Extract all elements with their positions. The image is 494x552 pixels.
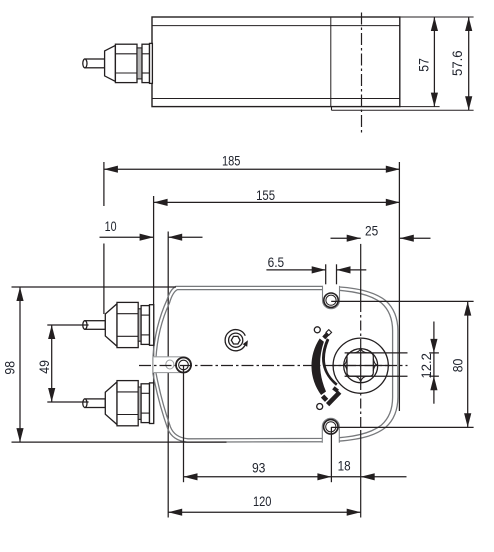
cable gland front lower: [83, 381, 154, 426]
scale diamond dash bottom (continuing outer arc): [323, 396, 327, 400]
svg-text:98: 98: [1, 361, 17, 375]
mounting bracket edge (vertical, inside body): [330, 17, 332, 107]
housing outline inner: [156, 290, 393, 439]
extension lines to top mounting hole: [325, 264, 327, 292]
dimension 12.2: [430, 322, 437, 404]
extension line (body edge at slot): [167, 232, 169, 518]
svg-text:80: 80: [450, 359, 466, 373]
cable gland front upper: [83, 302, 154, 347]
dimension 57: [431, 17, 438, 107]
gland cable: [85, 59, 105, 68]
scale end circle bottom: [317, 404, 323, 410]
horizontal centerline (front view): [139, 365, 408, 367]
vertical centerline through shaft: [360, 244, 362, 518]
svg-text:49: 49: [36, 360, 52, 374]
left mounting hole: [176, 358, 191, 373]
mounting slot (left, keyhole): [153, 357, 191, 373]
dimension 25: [331, 235, 431, 242]
housing inner top line: [152, 25, 400, 27]
cable gland (top view): [83, 43, 153, 83]
clamp cusp east: [373, 359, 376, 371]
svg-text:57: 57: [416, 58, 432, 72]
housing body (side view): [152, 17, 400, 107]
vertical centerline (top view): [361, 13, 363, 134]
position indicator scale: outer crescent arc: [311, 339, 326, 396]
dimension 18: [331, 473, 406, 480]
gland flange: [150, 383, 154, 424]
scale radial end bar: [328, 392, 340, 404]
clamp cusp south: [354, 376, 367, 382]
housing inner bottom line: [152, 98, 400, 100]
mounting ledge under housing: [331, 107, 333, 111]
gland cone: [105, 382, 117, 425]
clamp cusp west: [344, 359, 347, 371]
bottom mounting hole: [324, 420, 338, 434]
shaft flat extension lines (12.2): [345, 353, 439, 376]
dimension 10: [100, 232, 203, 518]
hole extension lines (80): [331, 301, 473, 427]
gland main nut: [117, 381, 138, 426]
svg-text:18: 18: [338, 458, 351, 474]
scale tick top (dash continuing outer arc): [324, 334, 328, 338]
bottom mounting hole notch: [322, 418, 339, 444]
svg-text:57.6: 57.6: [449, 50, 465, 76]
dimension 49: [47, 325, 88, 402]
gland locknut: [142, 44, 150, 82]
gland main nut: [117, 302, 138, 347]
svg-text:10: 10: [105, 218, 117, 234]
gland main nut: [115, 44, 137, 82]
bottom edge extension line (57): [400, 106, 440, 108]
gland cone: [105, 45, 116, 81]
gland locknut: [141, 384, 149, 423]
ledge bottom line / 57.6 extension line: [332, 109, 474, 111]
slot inner stadium: [166, 360, 174, 369]
dimension 80: [464, 302, 471, 428]
svg-text:93: 93: [252, 460, 266, 476]
gland washer ring: [138, 309, 141, 341]
gland flange: [150, 305, 154, 346]
dimension 98: [12, 287, 227, 442]
scale end circle top: [314, 327, 320, 333]
dimension 6.5: [266, 264, 366, 292]
gland flange: [150, 43, 153, 83]
extension line right (body edge): [398, 162, 400, 411]
gland cable: [85, 399, 105, 408]
dimension 185: [104, 162, 400, 411]
gland cable: [85, 321, 105, 330]
top mounting hole notch: [323, 284, 340, 308]
gland locknut: [141, 306, 149, 345]
extension line left (gland tip): [103, 162, 105, 206]
gland washer ring: [138, 387, 141, 419]
extension line left (slot tab): [153, 196, 155, 423]
hollow diamond marker top: [326, 330, 332, 336]
svg-text:120: 120: [253, 493, 272, 509]
position indicator scale: inner tapered arc: [322, 338, 338, 386]
manual override clutch button: [225, 330, 248, 351]
clamp square hole: [347, 353, 373, 376]
housing outline outer: [153, 286, 398, 442]
gland cone: [105, 304, 117, 347]
svg-text:6.5: 6.5: [268, 254, 285, 270]
svg-text:12.2: 12.2: [418, 353, 434, 379]
extension lines: [183, 365, 185, 482]
clamp cusp north: [354, 349, 367, 353]
output shaft with universal clamp: [333, 338, 388, 393]
dimension 120: [168, 509, 361, 516]
top edge extension line (57/57.6): [400, 16, 474, 18]
dimension 155: [154, 196, 400, 423]
dimension 93: [184, 365, 332, 482]
svg-text:155: 155: [256, 187, 275, 203]
svg-text:25: 25: [365, 223, 378, 239]
scale dash continuing inner arc: [333, 388, 337, 391]
dimension 57.6: [465, 17, 472, 110]
top mounting hole: [324, 293, 338, 307]
svg-text:185: 185: [222, 153, 241, 169]
gland washer ring: [137, 48, 142, 79]
